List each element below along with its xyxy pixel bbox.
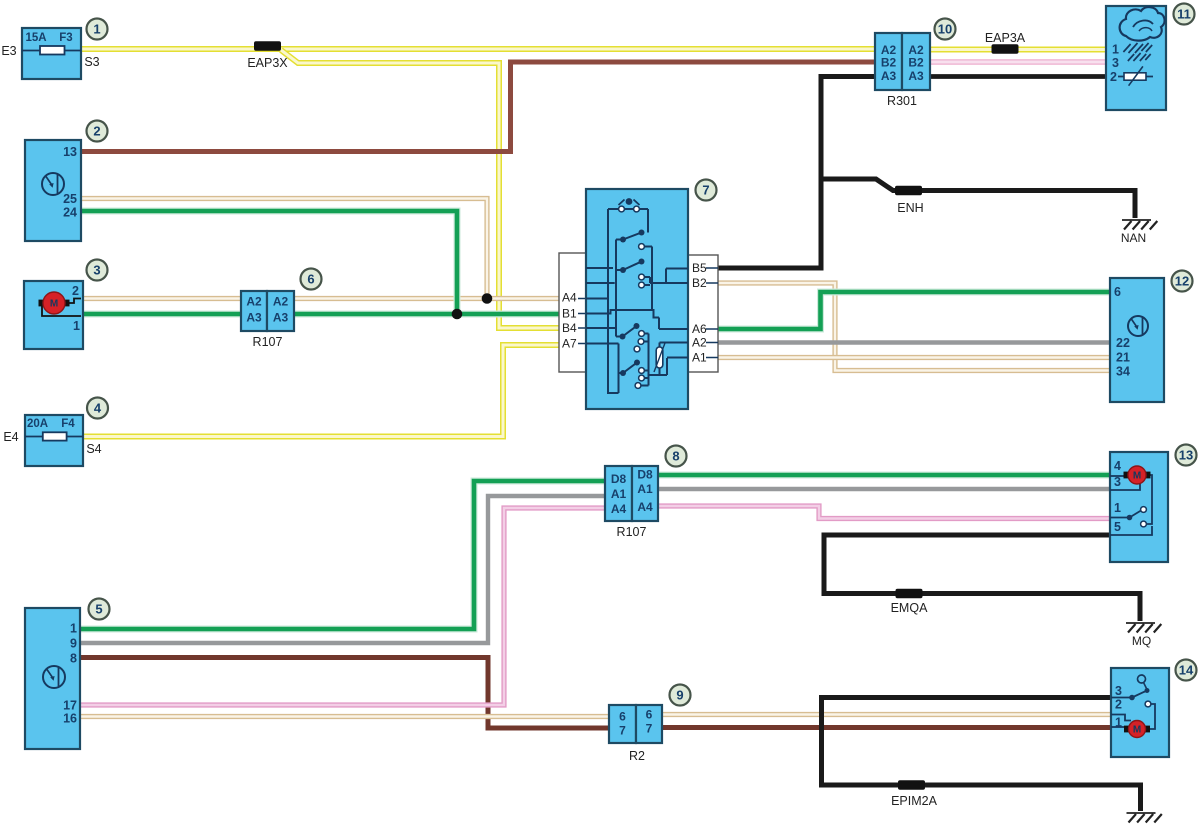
svg-text:3: 3 — [1112, 56, 1119, 70]
svg-text:2: 2 — [1115, 698, 1122, 712]
svg-text:A2: A2 — [273, 295, 289, 309]
svg-text:D8: D8 — [611, 472, 627, 486]
svg-text:A3: A3 — [246, 311, 262, 325]
svg-text:25: 25 — [63, 192, 77, 206]
svg-text:11: 11 — [1177, 7, 1191, 22]
svg-text:B2: B2 — [692, 276, 707, 290]
svg-text:A2: A2 — [246, 295, 262, 309]
svg-text:A6: A6 — [692, 322, 707, 336]
svg-text:3: 3 — [1115, 684, 1122, 698]
svg-text:8: 8 — [70, 652, 77, 666]
svg-text:S3: S3 — [84, 55, 99, 69]
svg-text:M: M — [1133, 725, 1141, 736]
svg-text:F4: F4 — [61, 418, 75, 430]
svg-text:EMQA: EMQA — [891, 601, 928, 615]
svg-text:E3: E3 — [1, 44, 16, 58]
svg-text:2: 2 — [72, 284, 79, 298]
svg-text:F3: F3 — [59, 32, 72, 44]
svg-text:2: 2 — [1110, 70, 1117, 84]
svg-text:9: 9 — [676, 688, 683, 703]
svg-text:S4: S4 — [86, 442, 101, 456]
svg-text:MQ: MQ — [1132, 634, 1151, 648]
svg-text:R2: R2 — [629, 749, 645, 763]
svg-text:EAP3X: EAP3X — [247, 56, 288, 70]
svg-text:A1: A1 — [692, 351, 707, 365]
svg-text:8: 8 — [672, 449, 679, 464]
svg-text:6: 6 — [619, 710, 626, 724]
svg-text:1: 1 — [1112, 43, 1119, 57]
svg-text:15A: 15A — [25, 32, 46, 44]
svg-text:A1: A1 — [637, 482, 653, 496]
svg-text:34: 34 — [1116, 365, 1130, 379]
svg-text:B2: B2 — [881, 56, 897, 70]
svg-text:2: 2 — [93, 124, 100, 139]
svg-text:5: 5 — [95, 602, 102, 617]
svg-text:M: M — [50, 299, 58, 310]
svg-text:7: 7 — [646, 722, 653, 736]
svg-text:1: 1 — [70, 622, 77, 636]
svg-text:A7: A7 — [562, 337, 577, 351]
svg-text:A4: A4 — [611, 502, 627, 516]
svg-text:5: 5 — [1114, 520, 1121, 534]
svg-text:1: 1 — [73, 319, 80, 333]
svg-text:B4: B4 — [562, 321, 577, 335]
svg-text:3: 3 — [1114, 475, 1121, 489]
svg-text:R107: R107 — [617, 525, 647, 539]
svg-text:13: 13 — [63, 145, 77, 159]
svg-text:1: 1 — [1115, 716, 1122, 730]
svg-text:17: 17 — [63, 699, 77, 713]
svg-text:6: 6 — [646, 708, 653, 722]
svg-text:NAN: NAN — [1121, 231, 1146, 245]
svg-text:4: 4 — [1114, 459, 1121, 473]
svg-text:14: 14 — [1179, 663, 1194, 678]
svg-text:A1: A1 — [611, 487, 627, 501]
svg-text:A3: A3 — [908, 69, 924, 83]
svg-text:13: 13 — [1179, 448, 1193, 463]
svg-text:4: 4 — [94, 401, 102, 416]
svg-text:ENH: ENH — [897, 201, 923, 215]
svg-text:EPIM2A: EPIM2A — [891, 794, 938, 808]
svg-text:A4: A4 — [637, 500, 653, 514]
svg-text:A3: A3 — [881, 69, 897, 83]
svg-text:21: 21 — [1116, 351, 1130, 365]
svg-text:12: 12 — [1175, 274, 1189, 289]
svg-text:R107: R107 — [253, 335, 283, 349]
svg-text:EAP3A: EAP3A — [985, 31, 1026, 45]
svg-text:A2: A2 — [692, 336, 707, 350]
svg-text:20A: 20A — [27, 418, 48, 430]
svg-text:M: M — [1133, 471, 1141, 482]
svg-text:7: 7 — [619, 724, 626, 738]
svg-text:E4: E4 — [3, 430, 18, 444]
svg-text:24: 24 — [63, 206, 77, 220]
svg-text:A3: A3 — [273, 311, 289, 325]
svg-text:10: 10 — [938, 22, 952, 37]
svg-text:6: 6 — [1114, 285, 1121, 299]
svg-text:22: 22 — [1116, 336, 1130, 350]
svg-text:7: 7 — [702, 183, 709, 198]
svg-text:R301: R301 — [887, 94, 917, 108]
svg-text:16: 16 — [63, 712, 77, 726]
svg-text:9: 9 — [70, 637, 77, 651]
svg-text:1: 1 — [1114, 501, 1121, 515]
svg-text:3: 3 — [93, 263, 100, 278]
svg-text:B2: B2 — [908, 56, 924, 70]
svg-text:6: 6 — [307, 272, 314, 287]
svg-text:1: 1 — [93, 22, 100, 37]
svg-text:A4: A4 — [562, 291, 577, 305]
svg-text:B5: B5 — [692, 261, 707, 275]
svg-text:D8: D8 — [637, 468, 653, 482]
svg-text:B1: B1 — [562, 307, 577, 321]
